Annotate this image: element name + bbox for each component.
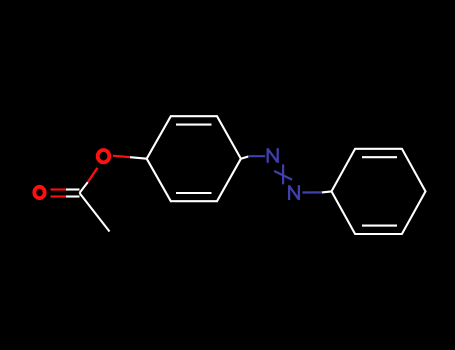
methyl bond CH3: [80, 193, 110, 232]
C-O ester bond red half: [88, 168, 98, 182]
C=O double bond red halves: [51, 190, 67, 197]
ring to N1 bond blue half: [248, 155, 265, 157]
middle ring inner aromatic line top: [176, 124, 212, 126]
ring to N1 bond white half: [241, 157, 248, 159]
N1=N2 azo double bond: [274, 164, 292, 184]
azo N2 letter: [289, 185, 299, 200]
N2 to right ring bond white half: [322, 191, 332, 192]
azo N1 letter: [268, 148, 278, 163]
right ring inner aromatic line bottom: [362, 225, 397, 227]
ester oxygen O2 letter: [98, 150, 110, 162]
O2 to ring bond red half: [113, 156, 130, 158]
N2 to right ring bond blue half: [302, 191, 322, 193]
C-O ester bond white half: [80, 182, 88, 193]
middle benzene ring: [147, 116, 241, 201]
middle ring inner aromatic line bottom: [176, 192, 212, 194]
right ring inner aromatic line top: [362, 156, 397, 158]
C=O double bond white halves: [66, 190, 80, 197]
carbonyl oxygen O1 letter: [34, 187, 44, 198]
right benzene ring: [332, 149, 426, 234]
O2 to ring bond white half: [130, 157, 147, 159]
